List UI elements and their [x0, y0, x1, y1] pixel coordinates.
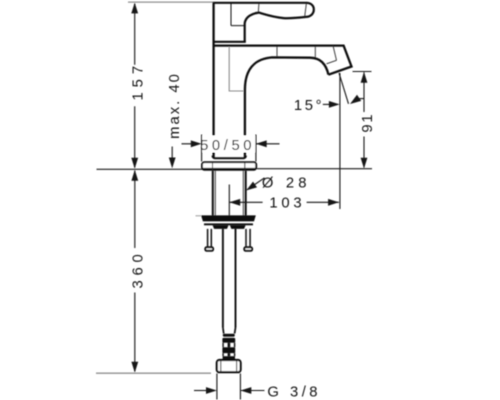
stud foot left: [205, 247, 213, 251]
dimension G3/8 left leader: [194, 390, 210, 392]
connector 15deg to 91 line: [358, 98, 364, 100]
arrow 50/50 right: [256, 140, 267, 147]
braided hose band 2: [222, 338, 235, 343]
spout underside: [245, 57, 329, 135]
spout top tick 2: [314, 47, 316, 58]
arrow max.40 bottom: [169, 158, 176, 169]
flange plate bottom heavy edge: [203, 168, 255, 171]
arrow 157 top: [131, 3, 138, 14]
outlet angled extension line (15deg): [339, 73, 349, 104]
extension line 50/50 left: [201, 135, 203, 162]
braided hose band 1: [223, 334, 235, 337]
spout head facet 2: [327, 60, 337, 64]
shank inner wall left: [214, 171, 216, 216]
arrow 103 left: [229, 199, 240, 206]
svg-text:360: 360: [131, 249, 147, 288]
handle cap facet: [305, 3, 307, 16]
reference line countertop left: [97, 168, 203, 170]
mounting washer top band: [201, 215, 256, 221]
arrow G3/8 right: [241, 387, 252, 394]
svg-text:G 3/8: G 3/8: [267, 385, 321, 400]
reference line countertop right (flange bottom level): [257, 168, 372, 170]
dimension Ø28 leader: [247, 178, 265, 190]
mounting washer lower bar: [204, 223, 253, 225]
label 50/50 (with white mask over body lines): [203, 136, 256, 152]
braided hose mid struts 2: [222, 353, 224, 356]
dimension G3/8 right leader: [241, 390, 265, 392]
braided hose band 4: [223, 356, 235, 359]
arrow 157 bottom: [131, 158, 138, 169]
body top edge and spout head outline: [214, 46, 352, 75]
extension line G3/8 left: [216, 374, 218, 400]
arrow 50/50 left: [191, 140, 202, 147]
handle facet line vertical: [230, 4, 232, 26]
braided hose band 3: [222, 347, 235, 353]
extension line 50/50 right: [255, 135, 257, 162]
svg-text:max. 40: max. 40: [167, 72, 183, 139]
body right edge lower: [244, 153, 246, 158]
supply pipe wall left: [222, 229, 224, 328]
handle base bottom line: [214, 41, 246, 43]
dimension 15deg leader: [323, 103, 331, 105]
pipe taper right: [234, 328, 237, 334]
dimension 157 line: [134, 4, 136, 65]
arrow G3/8 left: [206, 387, 217, 394]
hose nut facet right: [236, 360, 238, 372]
stud rod left: [207, 229, 209, 247]
svg-text:50/50: 50/50: [200, 138, 255, 154]
flange plate tick right: [244, 163, 246, 170]
svg-text:91: 91: [360, 113, 376, 133]
arrow 15deg right (points down-left at angled line): [350, 95, 361, 104]
arrow 360 top: [131, 170, 138, 181]
dimension 91 line: [363, 72, 365, 112]
stud foot right: [244, 247, 252, 251]
arrow 360 bottom: [131, 362, 138, 373]
shank outer wall right: [245, 171, 247, 216]
reference line top (faucet top level, grey): [128, 1, 215, 3]
flange plate tick left: [212, 163, 214, 170]
dimension 50/50 right leader: [256, 143, 280, 145]
stud rod right: [245, 229, 247, 247]
svg-text:Ø 28: Ø 28: [262, 176, 311, 192]
handle facet line horizontal: [231, 25, 244, 27]
extension line G3/8 right: [239, 374, 241, 400]
hose nut G3/8: [217, 360, 241, 372]
shank inner wall right: [242, 171, 244, 216]
pipe taper left: [222, 328, 225, 334]
flange lip: [212, 156, 246, 159]
shank centerline segment: [228, 185, 230, 216]
svg-text:103: 103: [269, 196, 305, 212]
spout top tick 1: [276, 47, 278, 57]
outlet vertical extension line: [339, 73, 341, 209]
mounting washer lump right: [230, 225, 246, 229]
mounting washer lump left: [213, 225, 229, 229]
arrow 91 top: [361, 72, 368, 83]
handle facet at arc: [257, 4, 260, 13]
extension line 91 top: [353, 71, 372, 73]
arrow 15deg left: [329, 101, 340, 108]
braided hose mid struts 1: [222, 343, 224, 348]
dimension 50/50 left leader: [182, 143, 199, 145]
arrow 103 right: [328, 199, 339, 206]
dimension max.40 line: [171, 147, 173, 161]
hose nut facet left: [220, 360, 222, 372]
supply pipe wall right: [235, 229, 237, 328]
reference line bottom (hose end level, grey): [96, 372, 211, 374]
faucet body left edge: [212, 2, 214, 136]
body inner facet grey L: [229, 47, 243, 91]
flange plate: [202, 162, 256, 170]
dimension 103 line: [229, 201, 262, 203]
svg-text:15°: 15°: [294, 98, 324, 114]
mounting washer extension grey tick: [196, 215, 202, 217]
spout head facet 1: [333, 46, 337, 61]
dimension 360 line: [134, 171, 136, 248]
arrow 91 bottom: [361, 158, 368, 169]
handle lever outline: [214, 3, 314, 42]
arrow Ø28: [246, 182, 257, 191]
svg-text:157: 157: [131, 61, 147, 101]
shank outer wall left: [212, 171, 214, 216]
